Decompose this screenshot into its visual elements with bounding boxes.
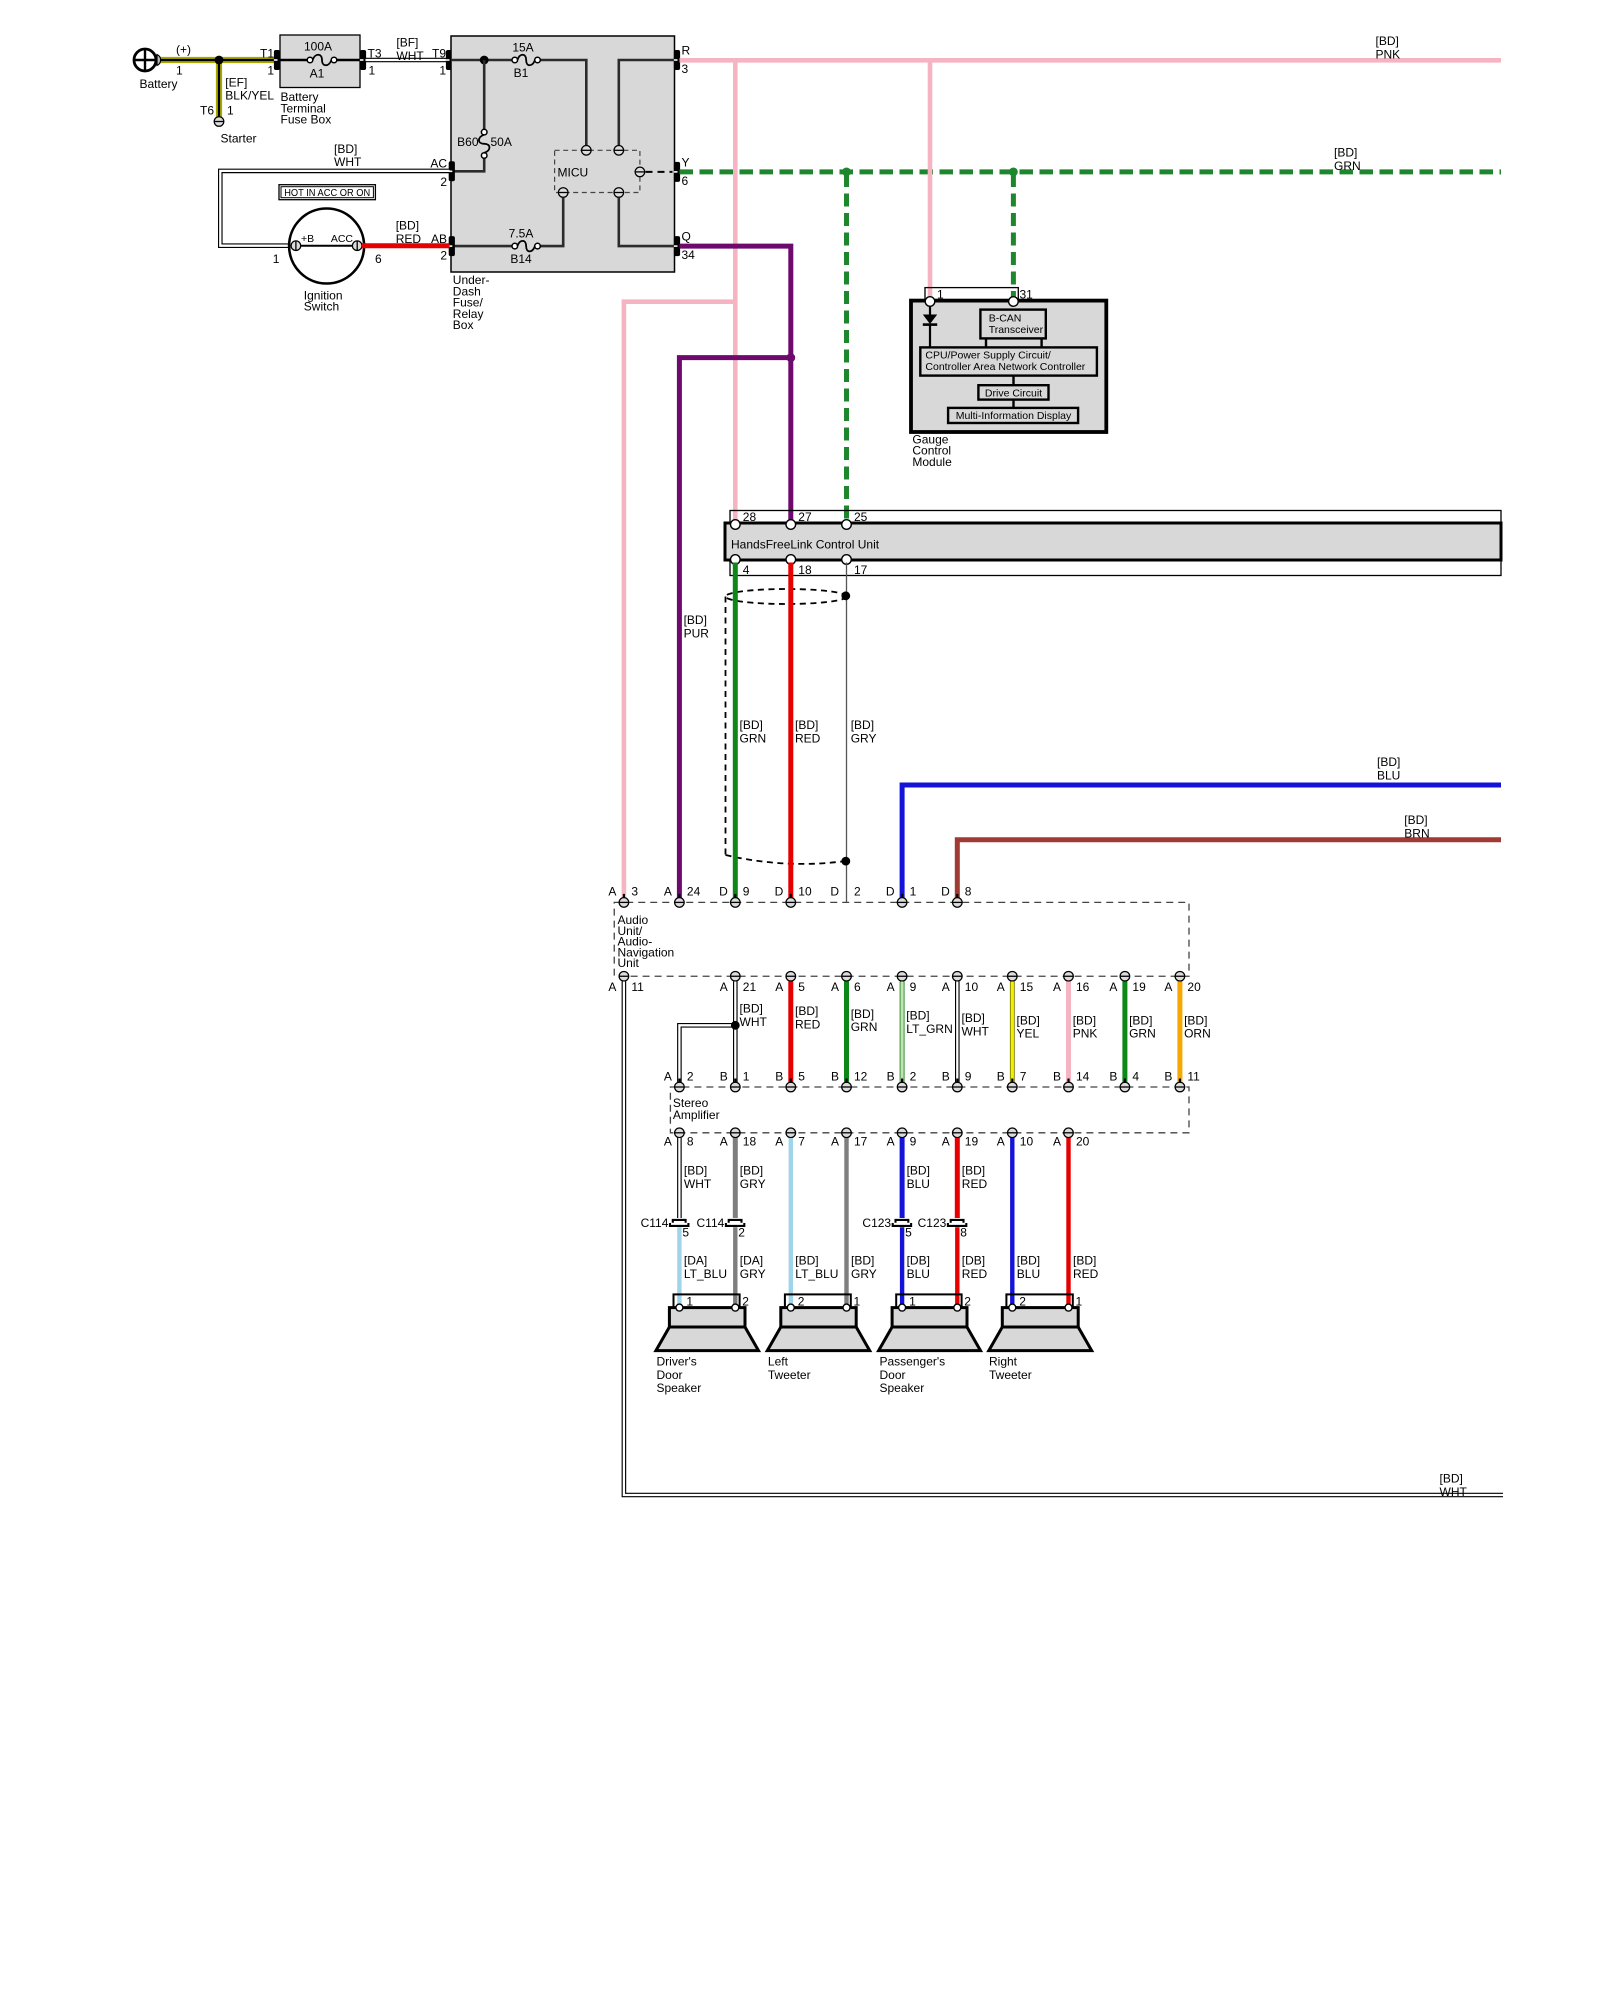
audio pin A16 xyxy=(1064,971,1074,984)
svg-text:19: 19 xyxy=(965,1134,979,1148)
label [BD] BLU xyxy=(1377,755,1400,782)
svg-text:27: 27 xyxy=(798,510,812,524)
svg-text:[BD]: [BD] xyxy=(1334,145,1357,159)
wire [BD] GRY A18 to C114 xyxy=(733,1138,738,1218)
svg-text:MICU: MICU xyxy=(558,166,589,180)
svg-text:Door: Door xyxy=(880,1368,906,1382)
amp pin A2 top xyxy=(675,1079,685,1092)
connector Q xyxy=(674,236,680,256)
svg-text:1: 1 xyxy=(227,104,234,118)
left tweeter xyxy=(767,1294,869,1350)
svg-text:D: D xyxy=(886,885,895,899)
amp pin B9 xyxy=(952,1079,962,1092)
svg-text:A: A xyxy=(720,980,728,994)
amp pin B14 xyxy=(1064,1079,1074,1092)
label [BD] WHT bottom xyxy=(1440,1472,1468,1499)
svg-text:2: 2 xyxy=(798,1295,805,1309)
svg-text:16: 16 xyxy=(1076,980,1090,994)
wire [BD] PNK vertical to HFL pin 28 xyxy=(733,60,738,520)
audio pin A9 xyxy=(897,971,907,984)
fuse A1 100A xyxy=(280,55,360,66)
shield dashed cylinder xyxy=(726,589,847,864)
wire [BD] WHT AC to ignition switch xyxy=(220,171,449,246)
MICU pin top-left xyxy=(581,146,591,156)
audio pin D9 xyxy=(730,894,740,907)
svg-text:[BD]: [BD] xyxy=(851,1254,874,1268)
junction B1/B60 xyxy=(480,56,489,65)
label T3 1 xyxy=(368,47,382,78)
svg-text:RED: RED xyxy=(795,731,821,745)
svg-text:C123: C123 xyxy=(918,1216,947,1230)
label [BD] YEL xyxy=(1017,1013,1040,1040)
MICU pin bottom-left xyxy=(558,188,568,198)
audio unit dashed box xyxy=(614,902,1189,976)
label left tweeter xyxy=(768,1355,811,1382)
audio pin A11 xyxy=(619,971,629,984)
svg-text:A: A xyxy=(608,980,616,994)
svg-text:4: 4 xyxy=(1132,1069,1139,1083)
svg-text:ACC: ACC xyxy=(331,233,354,245)
wire T9 to fuse B1 to MICU xyxy=(451,60,586,145)
svg-text:4: 4 xyxy=(743,563,750,577)
svg-text:[BD]: [BD] xyxy=(334,142,357,156)
fuse B60 50A xyxy=(481,129,487,135)
wire [BD] PNK branch to audio A3 xyxy=(624,302,735,898)
svg-text:6: 6 xyxy=(682,174,689,188)
svg-text:11: 11 xyxy=(631,980,644,994)
svg-text:WHT: WHT xyxy=(740,1015,768,1029)
gauge control module box xyxy=(911,301,1106,432)
wire CPU to drive circuit xyxy=(1012,376,1014,386)
svg-text:[BD]: [BD] xyxy=(1129,1013,1152,1027)
label [BD] BLU lower xyxy=(1017,1254,1040,1281)
svg-text:Fuse Box: Fuse Box xyxy=(281,113,332,127)
svg-text:[BD]: [BD] xyxy=(396,219,419,233)
svg-text:[DA]: [DA] xyxy=(740,1254,763,1268)
svg-text:D: D xyxy=(941,885,950,899)
svg-text:BLU: BLU xyxy=(1017,1267,1040,1281)
wire [BD] LT_BLU A7 to left tweeter xyxy=(789,1138,793,1304)
svg-text:15A: 15A xyxy=(512,41,533,55)
amp pin A10 bottom xyxy=(1007,1128,1017,1141)
svg-text:T1: T1 xyxy=(260,47,274,61)
label B60 50A xyxy=(457,135,512,149)
battery terminal fuse box xyxy=(280,35,360,88)
svg-text:2: 2 xyxy=(440,175,447,189)
amp pin B1 xyxy=(730,1079,740,1092)
svg-text:RED: RED xyxy=(1073,1267,1099,1281)
svg-text:50A: 50A xyxy=(491,135,512,149)
svg-text:[BD]: [BD] xyxy=(1017,1013,1040,1027)
wire [BD] BLU A9 to C123 xyxy=(900,1138,905,1218)
stereo amplifier dashed box xyxy=(670,1087,1189,1133)
label [BD] PUR xyxy=(684,613,710,640)
svg-text:YEL: YEL xyxy=(1017,1027,1040,1041)
svg-text:1: 1 xyxy=(369,64,376,78)
svg-text:8: 8 xyxy=(687,1134,694,1148)
svg-text:14: 14 xyxy=(1076,1069,1090,1083)
svg-text:D: D xyxy=(830,885,839,899)
junction battery/starter xyxy=(215,56,224,65)
svg-text:[BD]: [BD] xyxy=(684,613,707,627)
wire [BD] PNK A16 to B14 xyxy=(1066,982,1071,1083)
labels C114 C123 xyxy=(641,1216,968,1240)
gauge pin 31 xyxy=(1009,297,1019,307)
svg-text:12: 12 xyxy=(854,1069,868,1083)
junction green dash at gauge branch xyxy=(1009,168,1018,177)
svg-text:RED: RED xyxy=(962,1177,988,1191)
svg-text:8: 8 xyxy=(965,885,972,899)
svg-text:[BD]: [BD] xyxy=(962,1164,985,1178)
svg-text:GRN: GRN xyxy=(851,1020,878,1034)
wire [BD] WHT A10 to B9 xyxy=(955,982,960,1083)
svg-text:B: B xyxy=(1109,1069,1117,1083)
svg-text:2: 2 xyxy=(910,1069,917,1083)
svg-text:[BF]: [BF] xyxy=(396,36,418,50)
svg-text:1: 1 xyxy=(439,64,446,78)
audio pin A20 xyxy=(1175,971,1185,984)
label [BD] PNK xyxy=(1376,34,1401,61)
svg-text:WHT: WHT xyxy=(334,155,362,169)
wire [BD] PNK main horizontal xyxy=(680,58,1502,63)
HandsFreeLink control unit bar xyxy=(725,523,1501,560)
HFL pin 28 xyxy=(731,520,741,530)
amp pin B4 xyxy=(1120,1079,1130,1092)
svg-text:5: 5 xyxy=(682,1226,689,1240)
label Y 6 xyxy=(682,155,690,188)
svg-text:5: 5 xyxy=(905,1226,912,1240)
ignition pin +B xyxy=(291,241,301,251)
svg-text:HandsFreeLink Control Unit: HandsFreeLink Control Unit xyxy=(731,538,880,552)
svg-text:PNK: PNK xyxy=(1073,1027,1098,1041)
label [BD] WHT amp xyxy=(684,1164,712,1191)
svg-text:Passenger's: Passenger's xyxy=(880,1355,946,1369)
svg-text:2: 2 xyxy=(738,1226,745,1240)
MICU pin top-right xyxy=(614,146,624,156)
svg-text:[BD]: [BD] xyxy=(1073,1254,1096,1268)
under-dash fuse/relay box xyxy=(451,36,675,272)
svg-text:8: 8 xyxy=(960,1226,967,1240)
svg-text:20: 20 xyxy=(1076,1134,1090,1148)
label AB 2 xyxy=(431,232,447,263)
battery symbol xyxy=(134,49,161,71)
connector AB xyxy=(449,236,455,256)
label gauge pins 1 31 xyxy=(937,287,1033,301)
svg-text:[EF]: [EF] xyxy=(225,75,247,89)
passenger's door speaker xyxy=(879,1294,981,1350)
svg-text:[BD]: [BD] xyxy=(851,1007,874,1021)
svg-text:GRY: GRY xyxy=(740,1177,766,1191)
HFL top connector strip xyxy=(730,511,1501,524)
amp pin A9 bottom xyxy=(897,1128,907,1141)
wire [DA] LT_BLU C114 to speaker pin 1 xyxy=(677,1227,681,1304)
svg-text:Speaker: Speaker xyxy=(657,1381,702,1395)
svg-text:[BD]: [BD] xyxy=(851,718,874,732)
svg-text:[BD]: [BD] xyxy=(1404,813,1427,827)
svg-text:2: 2 xyxy=(440,249,447,263)
wire [BD] GRN dashed vertical to HFL pin 25 xyxy=(844,174,849,521)
svg-text:9: 9 xyxy=(743,885,750,899)
svg-text:Left: Left xyxy=(768,1355,789,1369)
label [BD] ORN xyxy=(1184,1013,1211,1040)
labels HFL pin numbers top 28 27 25 xyxy=(743,510,868,524)
connector C123 pin 8 xyxy=(948,1220,966,1226)
audio pin D1 xyxy=(897,894,907,907)
svg-text:Switch: Switch xyxy=(304,300,339,314)
svg-text:GRY: GRY xyxy=(851,1267,877,1281)
svg-text:10: 10 xyxy=(798,885,812,899)
svg-text:[BD]: [BD] xyxy=(1184,1013,1207,1027)
svg-text:(+): (+) xyxy=(176,43,191,57)
svg-text:5: 5 xyxy=(798,980,805,994)
wire [BD] GRN dashed vertical to gauge pin 31 xyxy=(1011,174,1016,299)
label 7.5A B14 xyxy=(509,227,534,267)
label audio unit xyxy=(618,913,675,970)
label battery (+) and pin 1 xyxy=(140,43,192,92)
svg-text:1: 1 xyxy=(273,252,280,266)
svg-text:Tweeter: Tweeter xyxy=(768,1368,811,1382)
svg-text:A: A xyxy=(887,1134,895,1148)
svg-text:A: A xyxy=(997,980,1005,994)
svg-text:A: A xyxy=(775,980,783,994)
svg-text:7.5A: 7.5A xyxy=(509,227,534,241)
MICU pin bottom-right xyxy=(614,188,624,198)
svg-text:2: 2 xyxy=(687,1069,694,1083)
drive circuit box xyxy=(978,385,1048,399)
svg-text:BLU: BLU xyxy=(907,1267,930,1281)
wire [BD] RED A19 to C123 xyxy=(955,1138,960,1218)
label gauge control module xyxy=(912,432,952,469)
svg-text:2: 2 xyxy=(964,1295,971,1309)
label stereo amplifier xyxy=(673,1096,720,1122)
wire [BD] RED A5 to B5 xyxy=(788,982,793,1083)
svg-text:18: 18 xyxy=(798,563,812,577)
amp pin B12 xyxy=(842,1079,852,1092)
label [EF] BLK/YEL xyxy=(225,75,274,102)
labels audio top pins xyxy=(608,885,971,899)
svg-text:Door: Door xyxy=(657,1368,683,1382)
svg-text:BLU: BLU xyxy=(1377,768,1400,782)
svg-text:Amplifier: Amplifier xyxy=(673,1108,720,1122)
svg-text:B: B xyxy=(1053,1069,1061,1083)
label +B ACC 1 6 xyxy=(273,233,382,266)
svg-text:Starter: Starter xyxy=(221,132,257,146)
label [BF] WHT xyxy=(396,36,424,63)
junction white wire xyxy=(731,1021,740,1030)
svg-text:6: 6 xyxy=(854,980,861,994)
wire [BD] GRN A6 to B12 xyxy=(844,982,849,1083)
svg-text:D: D xyxy=(775,885,784,899)
amp pin A20 bottom xyxy=(1064,1128,1074,1141)
label 15A B1 xyxy=(512,41,533,81)
label [BD] RED xyxy=(396,219,422,246)
svg-text:B: B xyxy=(997,1069,1005,1083)
svg-text:1: 1 xyxy=(267,64,274,78)
label [BD] GRN audio-amp 2 xyxy=(1129,1013,1156,1040)
connector C114 pin 2 xyxy=(726,1220,744,1226)
dashed link MICU to Y xyxy=(646,171,673,173)
svg-text:RED: RED xyxy=(795,1018,821,1032)
svg-text:BRN: BRN xyxy=(1404,826,1429,840)
svg-text:A: A xyxy=(664,1069,672,1083)
wire [BD] PUR branch to audio A24 xyxy=(679,358,790,898)
connector T3 xyxy=(360,50,366,70)
svg-text:C114: C114 xyxy=(697,1216,725,1230)
label [BD] WHT audio-amp xyxy=(740,1002,768,1029)
svg-text:A: A xyxy=(942,980,950,994)
svg-text:25: 25 xyxy=(854,510,868,524)
label [BD] WHT ignition xyxy=(334,142,362,169)
amp pin A19 bottom xyxy=(952,1128,962,1141)
label [BD] LT_BLU xyxy=(795,1254,838,1281)
wire [BD] GRY A17 to left tweeter xyxy=(844,1138,848,1304)
wire [BD] RED A20 to right tweeter xyxy=(1066,1138,1070,1304)
label R 3 xyxy=(682,44,691,77)
svg-text:RED: RED xyxy=(962,1267,988,1281)
svg-text:WHT: WHT xyxy=(684,1177,712,1191)
svg-text:B-CAN: B-CAN xyxy=(989,313,1022,325)
svg-text:19: 19 xyxy=(1132,980,1146,994)
svg-text:2: 2 xyxy=(854,885,861,899)
starter terminal xyxy=(214,117,224,127)
wire drive to display xyxy=(1012,400,1014,408)
svg-text:CPU/Power Supply Circuit/: CPU/Power Supply Circuit/ xyxy=(925,350,1051,362)
label battery terminal fuse box xyxy=(281,90,332,127)
connector T9 xyxy=(446,50,452,70)
svg-text:B14: B14 xyxy=(510,252,532,266)
wire [BD] BLU horizontal to audio D1 xyxy=(902,785,1501,898)
label [DA] LT_BLU xyxy=(684,1254,727,1281)
svg-text:1: 1 xyxy=(910,885,917,899)
B-CAN transceiver box xyxy=(980,310,1045,339)
svg-text:WHT: WHT xyxy=(1440,1485,1468,1499)
HOT IN ACC OR ON box xyxy=(279,185,375,200)
label right tweeter xyxy=(989,1355,1032,1382)
svg-text:A: A xyxy=(1053,1134,1061,1148)
svg-text:[BD]: [BD] xyxy=(1440,1472,1463,1486)
svg-text:GRN: GRN xyxy=(1129,1027,1156,1041)
svg-text:C123: C123 xyxy=(862,1216,891,1230)
svg-text:Tweeter: Tweeter xyxy=(989,1368,1032,1382)
svg-text:Drive Circuit: Drive Circuit xyxy=(985,387,1042,399)
svg-text:T6: T6 xyxy=(200,104,214,118)
svg-text:1: 1 xyxy=(1076,1295,1083,1309)
svg-text:RED: RED xyxy=(396,232,422,246)
wire [BD] GRY HFL17 to audio D2 xyxy=(846,563,848,903)
svg-text:B1: B1 xyxy=(514,66,529,80)
gauge module connector strip xyxy=(925,288,1018,301)
svg-text:[BD]: [BD] xyxy=(795,1004,818,1018)
svg-text:A: A xyxy=(997,1134,1005,1148)
wire [BD] YEL A15 to B7 xyxy=(1010,982,1015,1083)
label [BD] GRY shielded xyxy=(851,718,877,745)
labels amp top pins xyxy=(664,1069,1200,1083)
svg-text:PUR: PUR xyxy=(684,626,710,640)
multi-information display box xyxy=(948,408,1078,423)
svg-text:D: D xyxy=(719,885,728,899)
wire junction down to fuse B60 to AC xyxy=(483,60,486,130)
label starter T6 1 xyxy=(200,104,257,146)
svg-text:9: 9 xyxy=(910,980,917,994)
wire [BD] WHT branch to A2 xyxy=(679,1025,735,1082)
junction purple xyxy=(786,353,795,362)
svg-text:+B: +B xyxy=(301,233,314,245)
svg-text:A: A xyxy=(831,980,839,994)
label [DB] RED xyxy=(962,1254,988,1281)
amp pin A17 xyxy=(842,1128,852,1141)
wire [BD] GRN HFL4 to audio D9 xyxy=(733,563,738,899)
wire [BD] WHT A21 to B1 xyxy=(733,982,738,1083)
svg-text:WHT: WHT xyxy=(396,49,424,63)
wire MICU to fuse B14 to AB xyxy=(540,198,563,247)
labels amp bottom pins xyxy=(664,1134,1090,1148)
svg-text:BLK/YEL: BLK/YEL xyxy=(225,89,274,103)
label under-dash fuse/relay box xyxy=(453,273,490,332)
driver's door speaker xyxy=(656,1294,759,1350)
svg-text:A: A xyxy=(664,1134,672,1148)
ignition switch circle xyxy=(289,209,364,284)
wire [BD] PUR Q to HFL pin 27 xyxy=(680,246,791,520)
svg-text:AC: AC xyxy=(430,156,447,170)
labels HFL pin numbers bottom 4 18 17 xyxy=(743,563,868,577)
svg-text:C114: C114 xyxy=(641,1216,669,1230)
label Q 34 xyxy=(682,230,696,263)
svg-text:B: B xyxy=(720,1069,728,1083)
svg-text:[BD]: [BD] xyxy=(795,1254,818,1268)
audio pin A19 xyxy=(1120,971,1130,984)
svg-text:PNK: PNK xyxy=(1376,47,1401,61)
svg-text:B: B xyxy=(887,1069,895,1083)
svg-text:21: 21 xyxy=(743,980,757,994)
svg-text:17: 17 xyxy=(854,563,868,577)
svg-text:A: A xyxy=(1164,980,1172,994)
svg-text:GRY: GRY xyxy=(851,731,877,745)
diode xyxy=(923,306,937,347)
label [BD] BLU amp xyxy=(907,1164,930,1191)
audio pin A15 xyxy=(1007,971,1017,984)
svg-text:18: 18 xyxy=(743,1134,757,1148)
svg-text:2: 2 xyxy=(742,1295,749,1309)
svg-text:Battery: Battery xyxy=(140,77,178,91)
gauge pin 1 xyxy=(925,297,935,307)
svg-text:[DB]: [DB] xyxy=(962,1254,985,1268)
label driver's door speaker xyxy=(657,1355,702,1396)
label [BD] BRN xyxy=(1404,813,1429,840)
svg-text:1: 1 xyxy=(854,1295,861,1309)
svg-text:15: 15 xyxy=(1020,980,1034,994)
connector C114 pin 5 xyxy=(670,1220,688,1226)
wire MICU to Q xyxy=(619,198,675,247)
svg-text:BLU: BLU xyxy=(907,1177,930,1191)
connector C123 pin 5 xyxy=(893,1220,911,1226)
connector T1 xyxy=(274,50,280,70)
label [BD] RED shielded xyxy=(795,718,821,745)
svg-text:A: A xyxy=(1109,980,1117,994)
svg-text:[BD]: [BD] xyxy=(1017,1254,1040,1268)
audio pin D10 xyxy=(786,894,796,907)
svg-text:B60: B60 xyxy=(457,135,479,149)
svg-text:6: 6 xyxy=(375,252,382,266)
svg-text:B: B xyxy=(942,1069,950,1083)
MICU pin right xyxy=(635,167,645,177)
HFL pin 4 xyxy=(731,555,741,565)
svg-text:[BD]: [BD] xyxy=(1376,34,1399,48)
svg-text:1: 1 xyxy=(909,1295,916,1309)
svg-text:A: A xyxy=(664,885,672,899)
svg-text:GRN: GRN xyxy=(740,731,767,745)
svg-text:Driver's: Driver's xyxy=(657,1355,697,1369)
label [BD] RED audio-amp xyxy=(795,1004,821,1031)
